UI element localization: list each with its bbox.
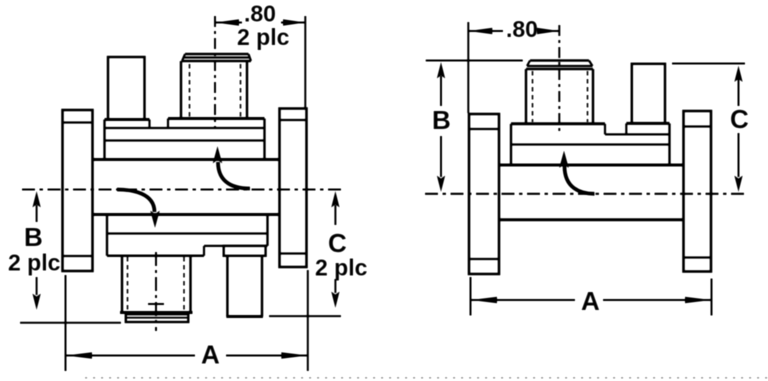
hidden lines in bottom threaded connector [128,257,185,311]
right flange (right view) [684,111,712,272]
svg-text:C: C [730,104,749,134]
centre axis of threaded connector (right view) [558,25,560,134]
lower deck block (left view) [107,215,268,256]
dimension .80 (left view) [215,16,305,108]
right flange (left view) [280,109,307,268]
dimension A (right view) [471,277,712,316]
svg-text:C: C [328,228,347,258]
svg-text:2 plc: 2 plc [315,255,368,281]
label .80 (right view) [506,16,538,42]
dimension B (left view) [20,191,121,323]
dimension C (right view) [672,64,745,193]
svg-text:B: B [24,222,43,252]
dimension A (left view) [66,270,308,371]
upper deck block (right view) [511,123,670,165]
bottom threaded connector (left view) [120,256,193,322]
label C 2 plc (left view) [315,228,368,281]
top plain connector cylinder (left view) [108,57,145,120]
dimension C (left view) [269,191,341,316]
centreline (left view) [22,188,345,190]
centre axis of top threaded connector [214,16,216,128]
label A (left view) [201,340,220,370]
left flange (right view) [469,114,499,274]
hidden lines in top threaded connector [190,64,241,118]
coupling flow arrow down (left view) [117,190,160,229]
coupling flow arrow (right view) [559,151,594,194]
scan artifact dotted rule at bottom [85,377,768,379]
left flange (left view) [63,110,93,271]
bottom plain connector plate + cylinder (left view) [224,246,266,317]
top threaded connector (left view) [181,54,251,119]
centreline (right view) [425,193,747,195]
dimension .80 (right view) [468,22,559,113]
waveguide body (left view) [93,160,280,215]
hidden lines in threaded connector (right view) [533,71,588,122]
centre axis of bottom threaded connector [148,252,164,331]
coupling flow arrow up (left view) [213,146,250,189]
svg-text:B: B [432,105,451,135]
svg-text:.80: .80 [506,16,538,42]
svg-text:A: A [581,286,600,316]
svg-text:2 plc: 2 plc [8,250,61,276]
label B (right view) [432,105,451,135]
label .80 2 plc (left view) [237,1,290,51]
svg-text:A: A [201,340,220,370]
label B 2 plc (left view) [8,222,61,276]
svg-text:.80: .80 [244,1,276,27]
threaded connector (right view) [526,61,593,124]
waveguide body (right view) [499,165,684,220]
svg-text:2 plc: 2 plc [237,24,290,50]
plain connector cylinder (right view) [632,64,665,124]
dimension B (right view) [426,61,523,193]
label A (right view) [581,286,600,316]
label C (right view) [730,104,749,134]
upper deck block (left view) [105,119,265,160]
